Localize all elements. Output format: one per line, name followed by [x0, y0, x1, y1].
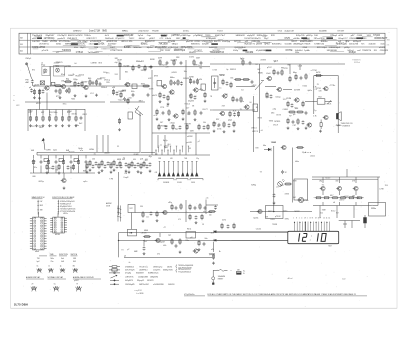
- display pin: [302, 222, 304, 232]
- resistor R53: [213, 121, 215, 127]
- label: [303, 200, 309, 202]
- table rule: [53, 51, 63, 53]
- svg-text:067: 067: [257, 69, 260, 71]
- svg-text:x5kn1: x5kn1: [310, 155, 315, 157]
- resistor R21: [120, 92, 122, 98]
- svg-text:032n: 032n: [75, 125, 79, 127]
- label: [307, 90, 312, 92]
- wire: [70, 85, 74, 87]
- label: [88, 78, 91, 80]
- capacitor C18: [163, 94, 166, 98]
- ground: [297, 127, 300, 130]
- table text: [62, 49, 72, 52]
- label: [316, 72, 321, 74]
- junction: [304, 221, 307, 224]
- svg-text:TRM32T6: TRM32T6: [362, 50, 372, 52]
- svg-text:4806: 4806: [144, 230, 148, 232]
- svg-text:7: 7: [320, 218, 321, 220]
- label: [253, 217, 258, 219]
- svg-text:LW: LW: [40, 201, 43, 203]
- wire: [337, 76, 339, 134]
- svg-text:x8: x8: [333, 202, 335, 204]
- resistor R69: [314, 75, 322, 77]
- label: [192, 106, 194, 108]
- wire: [55, 110, 57, 116]
- label: [336, 181, 339, 183]
- label: [39, 90, 41, 92]
- capacitor C46: [70, 160, 73, 164]
- wire: [39, 90, 41, 110]
- capacitor C16: [173, 81, 176, 85]
- svg-text:489: 489: [122, 159, 125, 161]
- display module DS1: [288, 231, 339, 243]
- svg-text:0M: 0M: [293, 197, 296, 199]
- label: [73, 79, 78, 81]
- svg-text:CK8n: CK8n: [355, 198, 360, 200]
- resistor R39: [168, 109, 170, 115]
- label: [163, 245, 166, 247]
- wire: [139, 135, 141, 152]
- pin: [167, 150, 168, 155]
- label: [105, 153, 110, 155]
- table text: [379, 47, 386, 49]
- svg-text:k6kx: k6kx: [295, 161, 299, 163]
- label: [243, 273, 245, 275]
- table text: [338, 41, 342, 43]
- table text: [271, 35, 276, 37]
- capacitor C27: [165, 125, 168, 129]
- capacitor C53: [281, 170, 284, 174]
- switch contact: [181, 172, 184, 177]
- svg-text:310: 310: [129, 97, 132, 99]
- table text: [168, 47, 179, 49]
- table text: [160, 38, 164, 40]
- table text: [73, 258, 77, 260]
- table text: [317, 47, 328, 49]
- pin label: [296, 218, 297, 220]
- label: [55, 234, 60, 236]
- resistor R33: [190, 93, 192, 99]
- table text: [32, 46, 46, 49]
- label: [166, 146, 169, 148]
- label: [222, 220, 226, 222]
- svg-text:94960M: 94960M: [163, 182, 170, 184]
- wire: [195, 133, 197, 155]
- svg-text:k2k: k2k: [199, 79, 202, 81]
- svg-text:102: 102: [56, 52, 59, 54]
- svg-text:CM: CM: [124, 173, 127, 175]
- wire: [292, 148, 294, 203]
- label: [288, 278, 293, 280]
- label: [160, 145, 162, 147]
- capacitor C45: [55, 160, 58, 164]
- switch contact: [172, 172, 175, 177]
- table rule: [303, 39, 310, 41]
- capacitor C17: [180, 81, 183, 85]
- svg-text:k3k0k: k3k0k: [165, 38, 172, 40]
- legend note: [129, 262, 131, 264]
- wire: [151, 70, 153, 133]
- label: [54, 63, 59, 65]
- resistor R38: [156, 109, 158, 115]
- table text: [147, 47, 154, 49]
- svg-text:1: 1: [307, 218, 308, 220]
- svg-text:26pT: 26pT: [264, 38, 269, 40]
- transistor T1: [44, 86, 49, 90]
- legend header: [32, 196, 45, 199]
- svg-text:k3: k3: [256, 64, 258, 66]
- svg-text:nC0: nC0: [154, 115, 157, 117]
- ground: [110, 171, 113, 174]
- display pin: [307, 222, 309, 232]
- svg-text:T5: T5: [240, 109, 242, 111]
- label: [140, 206, 143, 208]
- capacitor C26: [200, 111, 203, 115]
- svg-text:10: 10: [226, 94, 228, 96]
- svg-text:4TKx1: 4TKx1: [251, 127, 256, 129]
- label: [216, 119, 219, 121]
- svg-text:CM2p5: CM2p5: [25, 58, 31, 60]
- ground: [287, 127, 290, 130]
- legend text: [138, 277, 148, 279]
- junction: [326, 221, 329, 224]
- wire: [36, 152, 38, 155]
- label: [143, 240, 145, 242]
- svg-text:nTn: nTn: [80, 150, 83, 152]
- label: [205, 238, 208, 240]
- label: [129, 97, 132, 99]
- label: [226, 94, 228, 96]
- resistor R2: [38, 89, 40, 95]
- label: [220, 75, 224, 77]
- table text: [56, 44, 62, 46]
- label: [75, 76, 80, 78]
- ground: [143, 252, 146, 255]
- table text: [351, 35, 355, 37]
- svg-text:xp3n: xp3n: [83, 181, 87, 183]
- table text: [286, 49, 294, 52]
- pin: [163, 162, 165, 173]
- table text: [374, 50, 377, 52]
- label: [293, 197, 296, 199]
- label: [178, 219, 181, 221]
- label: [241, 89, 243, 91]
- wire: [119, 63, 121, 67]
- svg-text:225C5: 225C5: [49, 112, 55, 114]
- capacitor C67: [203, 125, 206, 129]
- svg-text:6T9p9CCC: 6T9p9CCC: [115, 38, 125, 40]
- wire: [159, 233, 161, 237]
- label: [112, 87, 115, 89]
- table text: [244, 38, 254, 40]
- table text: [83, 41, 89, 43]
- svg-text:p6n57R2: p6n57R2: [186, 41, 193, 43]
- label: [266, 97, 269, 99]
- caption: [48, 276, 67, 279]
- resistor R102: [110, 163, 112, 169]
- svg-text:K49: K49: [73, 261, 76, 263]
- svg-text:64: 64: [241, 89, 243, 91]
- resistor R91: [179, 238, 181, 244]
- svg-text:b = 36R6: b = 36R6: [137, 293, 144, 295]
- wire: [351, 221, 353, 229]
- wire: [62, 110, 64, 116]
- label: [161, 64, 167, 66]
- pin label: [328, 218, 330, 220]
- resistor R108: [180, 203, 182, 209]
- label: [196, 58, 201, 60]
- label: [92, 159, 95, 161]
- label: [295, 161, 299, 163]
- svg-text:pKM7R: pKM7R: [256, 44, 263, 46]
- label: [219, 251, 221, 253]
- transistor T9: [222, 94, 227, 98]
- svg-text:263: 263: [374, 50, 377, 52]
- svg-text:kKk: kKk: [163, 245, 166, 247]
- svg-text:n777M: n777M: [311, 70, 317, 72]
- wire: [42, 110, 44, 116]
- label: [276, 96, 281, 98]
- label: [65, 65, 71, 67]
- svg-text:C91: C91: [61, 81, 64, 83]
- wire: [50, 66, 210, 68]
- resistor R96: [58, 164, 60, 170]
- wire: [55, 155, 57, 159]
- label: [295, 211, 300, 213]
- table text: [191, 44, 200, 46]
- table text: [314, 44, 325, 46]
- label: [293, 181, 296, 183]
- resistor R18: [75, 115, 77, 121]
- display pin: [318, 222, 320, 232]
- svg-text:nk5R0: nk5R0: [343, 196, 348, 198]
- svg-text:49x8: 49x8: [266, 73, 270, 75]
- svg-text:nT8CK: nT8CK: [325, 104, 332, 106]
- table rule: [71, 39, 79, 41]
- resistor R44: [186, 124, 188, 130]
- capacitor C9: [80, 116, 83, 120]
- resistor R80: [296, 147, 304, 149]
- table text: [138, 35, 143, 37]
- label: [37, 266, 39, 268]
- ground: [42, 124, 45, 127]
- label: [161, 125, 168, 127]
- svg-text:7nnT2: 7nnT2: [217, 31, 224, 33]
- legend brace: [175, 265, 178, 269]
- footer: [14, 303, 28, 307]
- table text: [234, 47, 246, 49]
- label: [121, 90, 126, 92]
- wire: [25, 101, 105, 103]
- table text: [222, 41, 231, 43]
- label: [125, 72, 128, 74]
- label: [61, 81, 64, 83]
- table text: [141, 43, 148, 46]
- table text: [319, 31, 327, 33]
- resistor R1: [33, 89, 35, 95]
- svg-text:Kn12: Kn12: [331, 211, 335, 213]
- svg-text:931: 931: [115, 74, 118, 76]
- svg-text:knTk: knTk: [222, 220, 226, 222]
- table text: [357, 35, 363, 37]
- svg-text:43208: 43208: [54, 63, 59, 65]
- label: [127, 249, 130, 251]
- legend text: [148, 273, 158, 275]
- wire: [283, 89, 292, 91]
- table text: [51, 261, 54, 263]
- legend note: [135, 290, 142, 292]
- svg-text:56k: 56k: [203, 122, 206, 124]
- label: [154, 76, 158, 78]
- svg-text:42R4: 42R4: [67, 111, 72, 113]
- table text: [50, 40, 57, 43]
- wire: [37, 151, 155, 153]
- box X2: [186, 232, 196, 239]
- capacitor C60: [67, 165, 70, 169]
- svg-text:x50: x50: [112, 87, 115, 89]
- resistor R16: [61, 115, 63, 121]
- capacitor C39: [300, 76, 303, 80]
- svg-text:R8pnp21: R8pnp21: [137, 280, 144, 282]
- legend text: [136, 273, 144, 275]
- table rule: [206, 42, 213, 44]
- svg-text:TT5p6CMnk64x5: TT5p6CMnk64x5: [178, 271, 191, 273]
- table text: [176, 38, 180, 40]
- resistor R94: [233, 223, 235, 229]
- svg-text:n6k73: n6k73: [152, 95, 157, 97]
- label: [106, 202, 112, 205]
- label: [133, 159, 136, 161]
- label: [149, 156, 152, 158]
- table text: [381, 44, 385, 46]
- svg-text:TM6: TM6: [184, 158, 187, 160]
- table text: [59, 41, 71, 43]
- pin label: [310, 218, 312, 220]
- svg-text:TKM2MMTn6: TKM2MMTn6: [210, 51, 225, 54]
- wire: [313, 205, 378, 207]
- legend symbol 6: [110, 284, 119, 285]
- resistor R25: [132, 65, 134, 71]
- label: [260, 60, 265, 62]
- ground: [198, 248, 201, 251]
- svg-text:p0Kp: p0Kp: [344, 47, 350, 49]
- svg-text:25n: 25n: [51, 261, 54, 263]
- svg-text:KkpT9: KkpT9: [80, 47, 85, 49]
- label: [32, 69, 35, 71]
- svg-text:MC88: MC88: [55, 234, 60, 236]
- label: [294, 107, 296, 109]
- svg-text:xk58RR14: xk58RR14: [139, 270, 147, 272]
- label: [124, 66, 131, 68]
- capacitor C72: [195, 215, 198, 219]
- svg-text:4xC4: 4xC4: [105, 35, 109, 37]
- svg-text:B+: B+: [219, 251, 221, 253]
- label: [285, 219, 289, 221]
- svg-text:FOR ALL OTHER PARTS OF THE RAD: FOR ALL OTHER PARTS OF THE RADIO SECTION…: [208, 293, 356, 296]
- capacitor C12: [132, 93, 135, 97]
- svg-text:1nRR: 1nRR: [46, 150, 51, 152]
- table text: [56, 52, 59, 54]
- resistor R83: [322, 197, 330, 199]
- svg-text:3M12: 3M12: [170, 60, 175, 62]
- svg-text:CT543: CT543: [76, 51, 84, 54]
- wire: [124, 256, 212, 258]
- table text: [105, 38, 115, 40]
- label: [141, 233, 147, 235]
- svg-text:861: 861: [125, 72, 128, 74]
- table text: [321, 41, 328, 43]
- svg-text:8M: 8M: [83, 171, 86, 173]
- svg-text:p4: p4: [274, 61, 276, 63]
- resistor R27: [170, 79, 172, 85]
- table text: [373, 34, 380, 37]
- svg-text:1p: 1p: [314, 110, 316, 112]
- ground: [85, 95, 88, 98]
- label: [276, 187, 278, 189]
- wire: [40, 81, 44, 85]
- label: [200, 67, 203, 69]
- label: [187, 114, 190, 116]
- table rule: [150, 44, 154, 46]
- legend symbol 4: [111, 275, 118, 279]
- resistor R71: [47, 159, 49, 165]
- label: [354, 62, 360, 64]
- table header: [71, 254, 78, 256]
- svg-text:RpK14T71: RpK14T71: [245, 44, 256, 46]
- label: [177, 182, 182, 184]
- svg-text:0R7n1: 0R7n1: [121, 41, 128, 43]
- resistor R112: [201, 214, 203, 220]
- table left column line: [30, 33, 32, 54]
- label: [168, 202, 172, 204]
- transistor T10: [219, 111, 224, 115]
- svg-text:xnC: xnC: [357, 50, 361, 52]
- wire: [96, 135, 98, 152]
- svg-text:01k3p: 01k3p: [233, 50, 238, 52]
- table text: [158, 43, 168, 46]
- svg-text:pMT3M: pMT3M: [171, 34, 179, 37]
- svg-text:kR33x: kR33x: [63, 213, 68, 215]
- label: [302, 152, 307, 154]
- resistor R17: [68, 115, 70, 121]
- resistor R78: [131, 161, 133, 167]
- table text: [234, 41, 241, 43]
- transistor T13: [276, 87, 281, 91]
- label: [330, 85, 336, 87]
- label: [67, 112, 71, 114]
- resistor R55: [233, 121, 235, 127]
- ground: [137, 170, 140, 173]
- lamp LA4: [73, 268, 78, 272]
- wire: [119, 68, 121, 80]
- table rule: [330, 51, 344, 53]
- capacitor C40: [291, 103, 294, 107]
- pin label: [307, 218, 308, 220]
- label: [313, 116, 317, 118]
- table rule: [158, 48, 172, 50]
- legend text: [139, 270, 147, 272]
- label: [97, 79, 102, 81]
- pin label: [301, 218, 302, 220]
- label: [187, 229, 191, 231]
- table text: [348, 50, 354, 52]
- display pin: [310, 222, 312, 232]
- ground: [142, 220, 145, 223]
- pin label: [293, 218, 294, 220]
- svg-text:nCn: nCn: [146, 217, 149, 219]
- label: [202, 224, 204, 226]
- svg-text:197Mk: 197Mk: [303, 200, 309, 202]
